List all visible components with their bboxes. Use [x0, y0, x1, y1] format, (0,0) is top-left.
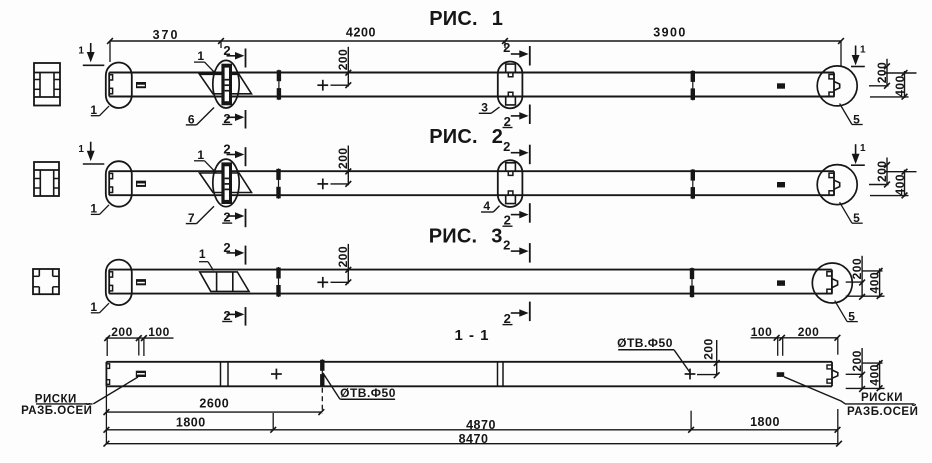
svg-text:2600: 2600: [199, 396, 229, 410]
svg-text:РИС.: РИС.: [429, 8, 478, 30]
svg-text:2: 2: [503, 237, 511, 252]
svg-text:1: 1: [860, 45, 866, 56]
svg-text:200: 200: [336, 49, 350, 71]
svg-text:370: 370: [153, 28, 180, 42]
svg-text:4200: 4200: [346, 26, 376, 40]
svg-text:1: 1: [78, 144, 84, 155]
svg-text:РАЗБ.ОСЕЙ: РАЗБ.ОСЕЙ: [847, 405, 918, 418]
svg-text:2: 2: [504, 213, 512, 228]
svg-text:1: 1: [90, 202, 97, 216]
svg-text:РИС.: РИС.: [429, 226, 478, 248]
svg-text:РИСКИ: РИСКИ: [861, 392, 903, 404]
svg-text:2: 2: [492, 126, 504, 148]
svg-text:ØТВ.Ф50: ØТВ.Ф50: [340, 386, 396, 400]
svg-text:4870: 4870: [466, 418, 496, 432]
svg-text:3: 3: [491, 226, 503, 248]
svg-text:1: 1: [90, 300, 97, 314]
svg-text:200: 200: [111, 325, 133, 339]
svg-text:1: 1: [860, 143, 866, 154]
svg-text:8470: 8470: [459, 432, 489, 446]
svg-text:400: 400: [893, 75, 907, 97]
svg-text:200: 200: [850, 350, 864, 372]
svg-text:ØТВ.Ф50: ØТВ.Ф50: [617, 336, 673, 350]
svg-text:1: 1: [78, 46, 84, 57]
svg-text:100: 100: [148, 325, 170, 339]
svg-text:3900: 3900: [653, 25, 686, 39]
svg-text:1: 1: [90, 103, 97, 117]
svg-text:1: 1: [197, 148, 204, 162]
svg-text:2: 2: [504, 114, 512, 129]
svg-text:200: 200: [336, 147, 350, 169]
svg-text:1: 1: [197, 49, 204, 63]
svg-text:5: 5: [848, 309, 855, 323]
svg-text:1: 1: [492, 8, 504, 30]
svg-text:1800: 1800: [750, 415, 780, 429]
svg-text:1: 1: [199, 247, 206, 261]
svg-text:2: 2: [223, 210, 231, 225]
svg-text:100: 100: [751, 325, 773, 339]
svg-text:400: 400: [868, 364, 882, 386]
svg-text:5: 5: [853, 211, 860, 225]
svg-text:3: 3: [481, 101, 488, 115]
svg-text:400: 400: [893, 174, 907, 196]
svg-text:РИС.: РИС.: [429, 126, 478, 148]
svg-text:РАЗБ.ОСЕЙ: РАЗБ.ОСЕЙ: [21, 404, 92, 417]
svg-text:2: 2: [503, 40, 511, 55]
svg-text:2: 2: [223, 111, 231, 126]
svg-text:4: 4: [483, 199, 490, 213]
svg-text:200: 200: [798, 325, 820, 339]
svg-text:5: 5: [853, 112, 860, 126]
svg-text:2: 2: [503, 139, 511, 154]
svg-text:400: 400: [868, 272, 882, 294]
svg-text:200: 200: [701, 338, 715, 360]
svg-text:2: 2: [223, 308, 231, 323]
svg-text:2: 2: [504, 311, 512, 326]
svg-text:1 - 1: 1 - 1: [454, 327, 489, 344]
svg-text:200: 200: [850, 258, 864, 280]
svg-text:200: 200: [336, 246, 350, 268]
svg-text:1800: 1800: [176, 415, 206, 429]
